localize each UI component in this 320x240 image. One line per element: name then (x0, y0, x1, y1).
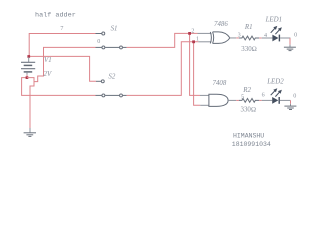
wire net 4 (259, 37, 272, 39)
svg-text:S1: S1 (111, 25, 118, 32)
svg-text:HIMANSHU: HIMANSHU (233, 133, 264, 140)
wire junction to AND pin B (194, 42, 201, 106)
wire net 7 battery+ to S1 (29, 34, 95, 57)
battery V1 (21, 57, 35, 75)
svg-text:2V: 2V (44, 71, 52, 78)
XOR output wire net 3 (230, 37, 239, 39)
wire battery- to rail (22, 75, 96, 96)
svg-text:R2: R2 (242, 87, 251, 94)
svg-text:330Ω: 330Ω (241, 107, 257, 114)
wire LED2 to ground (280, 100, 291, 106)
svg-text:LED2: LED2 (266, 78, 284, 85)
svg-text:0: 0 (97, 39, 100, 45)
svg-text:0: 0 (294, 33, 297, 39)
resistor R2 330ohm (239, 99, 259, 103)
resistor R1 330ohm (239, 36, 259, 40)
wire LED1 to ground (280, 38, 290, 47)
junction battery+ (27, 55, 30, 58)
wire battery- to ground (27, 78, 34, 128)
wire junction to AND pin A (190, 33, 200, 95)
wire S1 common to XOR pin 2 (127, 33, 198, 47)
junction XOR pin1 node (192, 40, 195, 43)
svg-text:1810991034: 1810991034 (232, 141, 271, 148)
LED2 (272, 88, 282, 104)
svg-text:S2: S2 (108, 74, 115, 81)
ground G3 (284, 106, 296, 109)
svg-text:0: 0 (293, 93, 296, 99)
svg-text:7408: 7408 (213, 80, 227, 87)
svg-text:7: 7 (60, 26, 63, 32)
junction XOR pin2 node (188, 32, 191, 35)
wire net 0 rail to S1 lower throw (34, 47, 96, 81)
svg-text:4: 4 (264, 33, 267, 39)
svg-text:7486: 7486 (214, 21, 228, 28)
svg-text:6: 6 (262, 92, 265, 98)
svg-text:half adder: half adder (35, 12, 76, 20)
svg-text:LED1: LED1 (265, 17, 282, 24)
wire battery+ horizontal to S2 feed (29, 56, 96, 81)
LED1 (272, 26, 282, 42)
wire net 6 (259, 99, 272, 101)
XOR gate U1 7486 (198, 32, 230, 44)
switch S2 (96, 80, 127, 97)
svg-text:2: 2 (191, 29, 194, 35)
svg-text:330Ω: 330Ω (241, 46, 257, 53)
AND gate U2 7408 (200, 94, 228, 106)
switch S1 (96, 32, 127, 49)
wire S2 common to XOR pin 1 (127, 42, 199, 96)
AND output wire net 5 (228, 99, 239, 101)
svg-text:R1: R1 (244, 24, 253, 31)
junction battery- (26, 76, 29, 79)
ground G1 (24, 128, 36, 136)
svg-text:V1: V1 (44, 57, 52, 64)
ground G2 (284, 47, 296, 50)
